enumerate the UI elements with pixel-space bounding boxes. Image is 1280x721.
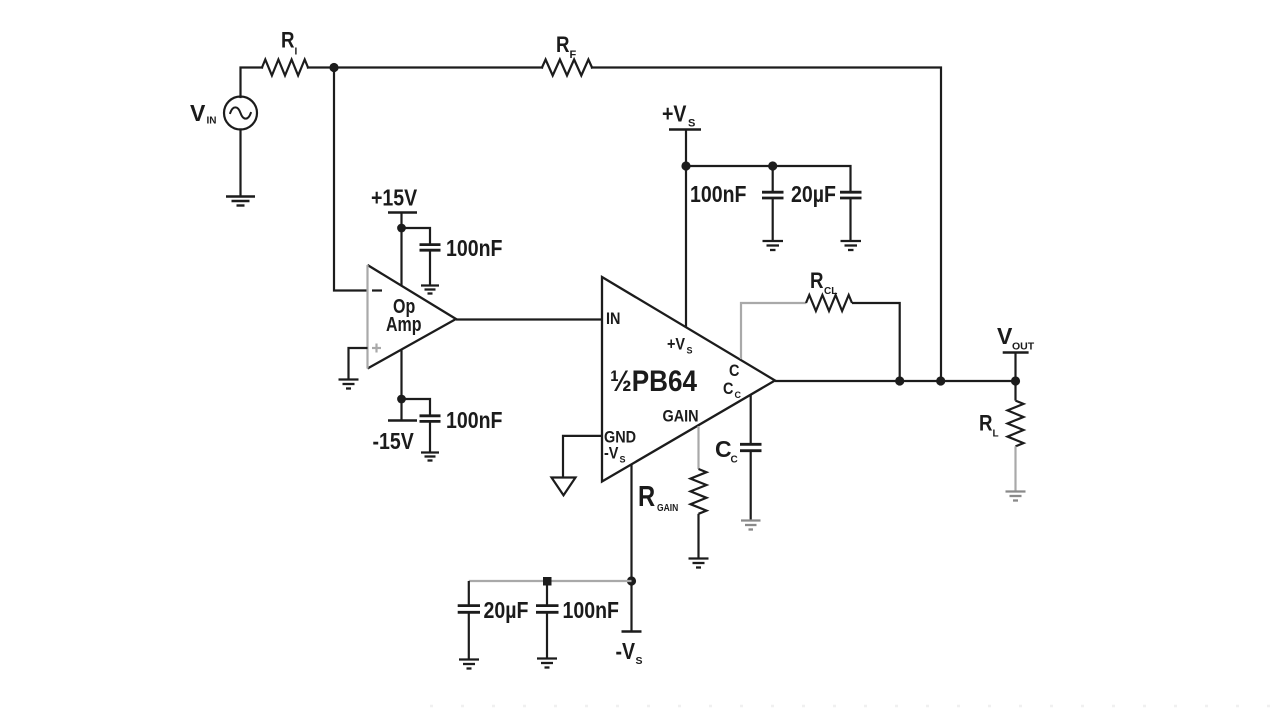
+15V terminal	[388, 211, 417, 213]
resistor RF	[542, 60, 592, 76]
resistor RI	[262, 60, 308, 76]
wire VOUT	[1014, 353, 1016, 382]
ground (RGAIN)	[689, 559, 709, 568]
wire CC- pin to CC cap	[750, 395, 752, 443]
ground (op-amp + bypass)	[421, 286, 439, 294]
node +VS rail mid	[768, 161, 777, 170]
svg-text:100nF: 100nF	[690, 182, 746, 208]
capacitor 20uF (-VS bypass)	[468, 581, 470, 605]
svg-text:+V: +V	[662, 101, 687, 127]
svg-text:R: R	[810, 270, 824, 294]
resistor RL	[1008, 401, 1024, 447]
svg-text:OUT: OUT	[1012, 341, 1035, 353]
svg-text:I: I	[295, 47, 298, 58]
svg-text:-V: -V	[604, 444, 619, 462]
svg-text:S: S	[620, 455, 626, 465]
svg-text:V: V	[997, 323, 1013, 349]
ground (20uF +VS)	[841, 241, 862, 250]
svg-text:½PB64: ½PB64	[610, 364, 697, 397]
svg-text:S: S	[688, 118, 695, 130]
ground for VIN	[226, 197, 255, 206]
svg-text:GAIN: GAIN	[657, 502, 678, 513]
ground (RL, gray)	[1006, 492, 1026, 501]
svg-text:-V: -V	[616, 639, 636, 665]
wire RGAIN to ground	[697, 514, 699, 558]
svg-text:R: R	[979, 412, 993, 436]
node square junction	[543, 577, 552, 586]
node junction RI/RF	[329, 63, 338, 72]
resistor RGAIN	[691, 469, 707, 514]
wire feedback node down to op-amp inverting input	[334, 68, 368, 291]
wire +VS to PB64	[685, 130, 687, 328]
node VOUT	[1011, 376, 1020, 385]
wire CC+ pin to RCL (gray)	[741, 303, 806, 359]
wire branch to bypass cap bottom	[402, 399, 431, 415]
source VIN circle	[224, 97, 257, 130]
svg-text:L: L	[993, 429, 999, 440]
ground arrow (GND pin)	[552, 478, 576, 496]
wire RL to ground (gray)	[1014, 446, 1016, 491]
svg-text:R: R	[281, 29, 295, 53]
svg-text:R: R	[638, 480, 655, 513]
capacitor CC	[740, 444, 762, 450]
wire top rail from VIN to RI	[241, 68, 263, 98]
source VIN sine	[230, 107, 251, 118]
ground (op-amp - bypass)	[421, 453, 439, 461]
node RCL/output	[895, 376, 904, 385]
node feedback/output	[936, 376, 945, 385]
wire +VS bypass rail	[686, 166, 851, 191]
capacitor 100nF (+VS bypass)	[772, 166, 774, 191]
svg-text:R: R	[556, 34, 570, 58]
wire RCL to output node	[852, 303, 900, 381]
booster U2 half PB64	[602, 277, 775, 482]
svg-text:CL: CL	[824, 286, 837, 297]
svg-text:IN: IN	[207, 116, 217, 127]
svg-text:Amp: Amp	[386, 313, 422, 335]
wire op-amp output to PB64 IN	[456, 318, 602, 320]
wire +15V to op-amp V+	[400, 213, 402, 286]
op-amp minus input mark	[372, 289, 382, 291]
svg-text:V: V	[190, 100, 206, 126]
svg-text:C: C	[723, 380, 733, 398]
svg-text:C: C	[715, 436, 732, 462]
wire RI to RF	[308, 66, 542, 68]
ground (CC, gray)	[741, 521, 761, 530]
wire -VS bypass rail (gray)	[469, 580, 632, 582]
svg-text:100nF: 100nF	[446, 408, 502, 434]
faint scan artifacts bottom	[430, 705, 1280, 708]
capacitor 100nF (op-amp -supply)	[420, 416, 441, 422]
svg-text:100nF: 100nF	[563, 598, 619, 624]
capacitor 100nF (-VS bypass)	[546, 586, 548, 605]
wire PB64 output rail	[775, 380, 1016, 382]
svg-text:IN: IN	[606, 310, 620, 328]
ground (op-amp + input)	[339, 380, 359, 389]
wire op-amp non-inverting input to ground	[349, 348, 368, 379]
wire op-amp V- supply	[400, 349, 402, 421]
-VS terminal	[622, 630, 642, 632]
capacitor 100nF (op-amp +supply)	[420, 245, 441, 251]
ground (20uF -VS)	[459, 660, 479, 669]
ground (100nF -VS)	[537, 659, 557, 668]
svg-text:S: S	[636, 655, 643, 667]
node +15V branch	[397, 224, 406, 233]
svg-text:C: C	[735, 390, 742, 400]
svg-text:100nF: 100nF	[446, 236, 502, 262]
svg-text:S: S	[687, 346, 693, 356]
svg-text:+15V: +15V	[371, 185, 418, 211]
ground (100nF +VS)	[763, 241, 784, 250]
node -15V branch	[397, 395, 406, 404]
wire branch to bypass cap	[402, 228, 431, 244]
node +VS rail left	[681, 161, 690, 170]
wire RF to output node (feedback return)	[592, 68, 941, 382]
op-amp plus input mark	[372, 344, 381, 353]
svg-text:F: F	[570, 49, 577, 61]
wire VOUT node to RL	[1014, 381, 1016, 401]
resistor RCL	[806, 295, 852, 311]
node -VS junction	[627, 576, 636, 585]
svg-text:C: C	[729, 362, 739, 380]
+VS terminal	[669, 128, 701, 130]
wire GND pin	[563, 436, 602, 477]
svg-text:-15V: -15V	[373, 429, 415, 455]
capacitor 20uF (+VS bypass)	[840, 192, 862, 198]
svg-text:C: C	[731, 455, 738, 466]
svg-text:+V: +V	[667, 335, 686, 353]
svg-text:GAIN: GAIN	[663, 407, 699, 425]
-15V terminal	[388, 419, 417, 421]
wire VIN to ground	[239, 130, 241, 197]
svg-text:20µF: 20µF	[484, 598, 529, 624]
wire -VS pin down	[630, 464, 632, 632]
op-amp U1	[368, 265, 457, 369]
wire GAIN pin (gray)	[697, 426, 699, 469]
VOUT terminal	[1003, 351, 1029, 353]
svg-text:20µF: 20µF	[791, 182, 836, 208]
